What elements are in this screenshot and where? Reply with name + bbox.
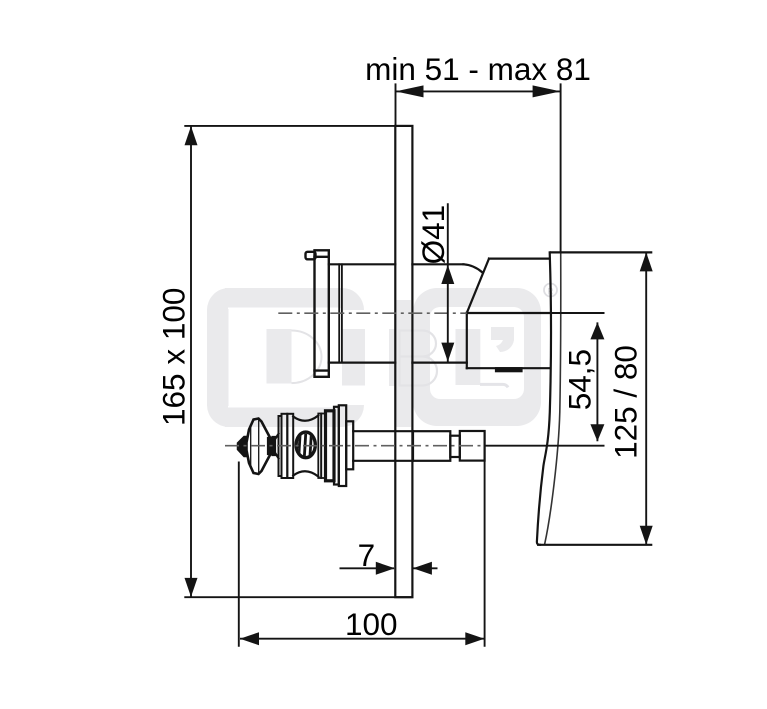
dimensions [184, 83, 652, 646]
handle top edge [489, 258, 550, 260]
arrow 125-80 bottom [640, 526, 653, 545]
watermark registered mark [544, 284, 557, 297]
ext 54-5 top [550, 312, 605, 314]
arrow 100 right [465, 632, 484, 645]
watermark apostrophe [491, 327, 514, 352]
knob crystal facets [250, 427, 252, 467]
knob drum [326, 411, 335, 481]
arrow min51 left [396, 85, 424, 97]
arrow min51 right [533, 85, 561, 97]
knob ring D [318, 414, 321, 479]
watermark small L stem [456, 329, 481, 385]
sleeve right of plate [412, 263, 463, 265]
shaft neck [450, 436, 460, 457]
svg-text:Ø41: Ø41 [415, 205, 451, 265]
clip screw [496, 368, 522, 371]
watermark logo Dibl (light gray, behind drawing) [207, 284, 557, 428]
knob ring F [339, 405, 346, 486]
shaft segment box [413, 431, 450, 461]
knob flare [276, 434, 279, 458]
watermark i overlap bar [389, 329, 411, 386]
lever blade right edge [545, 252, 561, 543]
watermark small d stem [267, 329, 292, 384]
shaft end cap [460, 431, 485, 461]
sleeve corner arc [464, 264, 483, 272]
arrow 54-5 top [590, 322, 604, 339]
watermark ring B [413, 288, 541, 426]
arrow 165 top [185, 126, 198, 145]
body cylinder [329, 263, 396, 265]
arrow dia41 top [441, 265, 454, 284]
upper centerline [278, 312, 467, 314]
ext 100 right [484, 431, 486, 647]
arrow dia41 bottom [441, 343, 454, 362]
watermark big i stem [395, 300, 411, 427]
dimension texts [156, 51, 644, 642]
svg-text:125 / 80: 125 / 80 [607, 345, 643, 459]
ext line right top [560, 83, 562, 252]
ext 125-80 bottom (also lever tip bottom) [537, 544, 652, 546]
svg-text:7: 7 [358, 537, 376, 573]
watermark small d bowl outline [292, 331, 322, 384]
arrow 7 right [413, 562, 432, 575]
dim 54-5 line [596, 322, 598, 441]
knob hourglass [293, 416, 318, 477]
wall plate [395, 126, 412, 597]
ext line 165 bottom [184, 596, 412, 598]
drawing dark lines [238, 126, 561, 597]
centerlines [225, 313, 485, 446]
arrow 125-80 top [640, 252, 653, 271]
handle skirt slant [467, 259, 489, 313]
flange plate [315, 250, 329, 376]
ext line 165 top [184, 125, 395, 127]
watermark ring D top band [225, 288, 364, 310]
knob tip [238, 437, 247, 457]
knob step block [346, 421, 353, 469]
svg-text:165 x 100: 165 x 100 [156, 288, 192, 426]
knob collar rings [279, 416, 282, 476]
watermark small i stem [342, 329, 365, 386]
dim 7 right tail [414, 567, 438, 569]
arrow 100 left [240, 632, 259, 645]
arrowheads [185, 85, 653, 645]
ext line left top [395, 83, 397, 126]
watermark small L foot [480, 384, 508, 387]
handle block bottom [467, 367, 550, 369]
svg-text:54,5: 54,5 [561, 349, 597, 410]
body step lines [338, 264, 340, 362]
ext 100 left [238, 462, 240, 647]
knob crystal [247, 419, 272, 475]
shaft [353, 430, 413, 432]
dim 165x100 line [190, 126, 192, 597]
watermark ring D left band [207, 288, 229, 427]
knob ring E [334, 407, 339, 485]
dim min51max81 line [396, 90, 561, 92]
ext 125-80 top (also lever top edge) [550, 251, 653, 253]
arrow 54-5 bottom [590, 424, 604, 441]
knob sphere [296, 432, 315, 458]
flange tab [306, 252, 316, 259]
dim 100 line [240, 638, 484, 640]
dim 7 left line [340, 567, 395, 569]
svg-text:min 51 - max 81: min 51 - max 81 [365, 51, 591, 87]
arrow 7 left [376, 562, 395, 575]
lower centerline [225, 445, 485, 447]
watermark small B outline [399, 330, 438, 386]
dim 125-80 line [645, 252, 647, 544]
knob neck ring [268, 437, 276, 456]
sleeve right edge [466, 313, 468, 368]
handle joint line [467, 312, 550, 314]
lever blade left edge [537, 252, 551, 544]
arrow 165 bottom [185, 578, 198, 597]
dim dia41 line [447, 203, 449, 362]
svg-text:100: 100 [345, 606, 398, 642]
watermark ring D bottom band [225, 405, 364, 427]
ext 54-5 bottom / lower solid line [485, 445, 605, 447]
knob sphere hatch [299, 431, 312, 459]
